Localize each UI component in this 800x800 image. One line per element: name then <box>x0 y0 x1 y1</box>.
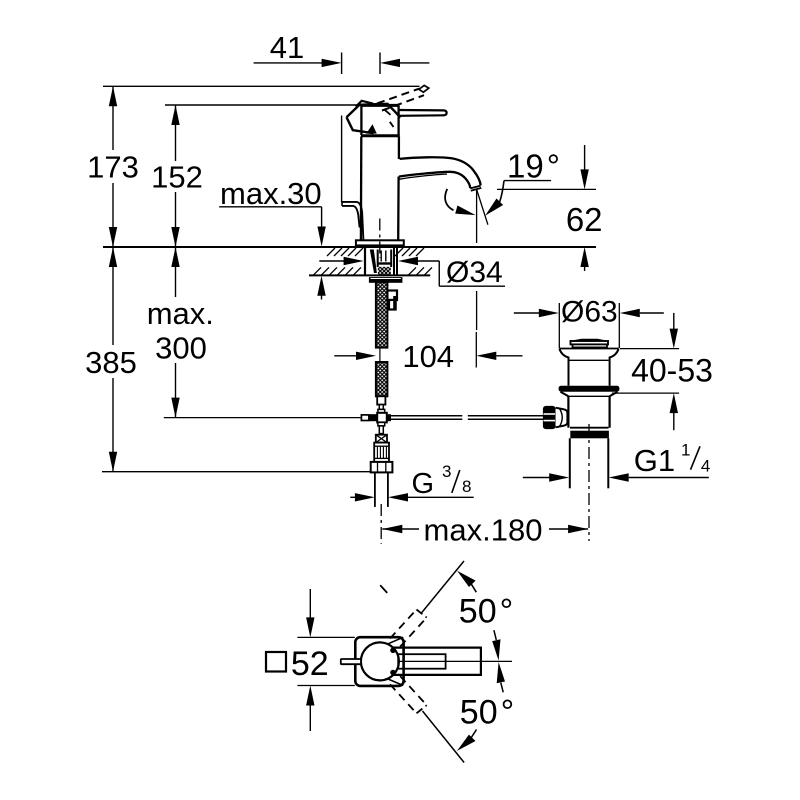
top view square body <box>355 637 403 686</box>
svg-text:50°: 50° <box>459 593 513 631</box>
knurled connector body <box>374 443 389 462</box>
faucet lower centerline <box>380 504 382 544</box>
threaded shank through counter <box>365 248 397 276</box>
dimension 173 <box>87 86 139 247</box>
reference line top of faucet (173 datum) <box>103 85 420 87</box>
bottom reference line (385 datum) <box>102 471 371 473</box>
reference line top of handle base (152 datum) <box>165 104 362 106</box>
spout outlet vertical extension line <box>476 190 478 330</box>
valve shoulder line <box>559 348 618 350</box>
horizontal pop-up rod <box>391 416 543 419</box>
faucet body right edge upper <box>398 137 400 160</box>
lower 50deg leader arrow <box>457 694 514 751</box>
valve side knob <box>543 406 556 429</box>
dimension 19 degrees with leader <box>485 147 560 215</box>
angle vertex arrows at centerline <box>492 630 505 692</box>
dimension max.300 <box>147 247 214 418</box>
svg-text:1: 1 <box>681 441 690 460</box>
dimension 104 <box>334 332 522 374</box>
handle lever rod <box>399 110 447 116</box>
svg-text:max.: max. <box>147 296 214 331</box>
raised lever dashed <box>377 85 429 110</box>
top view lever neck diagonals <box>388 637 403 685</box>
water stream angled line <box>477 190 488 225</box>
dimension 41 <box>254 30 430 202</box>
svg-text:4: 4 <box>701 456 710 475</box>
valve knob stem <box>556 408 568 428</box>
hose side connector <box>387 291 397 310</box>
lower 50deg leg line <box>423 711 465 763</box>
countertop hatching <box>313 248 432 275</box>
dimension max.30 with leader <box>219 176 326 299</box>
dimension square52 <box>266 589 355 731</box>
upper 50deg leg line <box>421 561 464 614</box>
faucet body left edge <box>360 137 363 241</box>
countertop bottom line <box>309 274 430 276</box>
braided hose segment 1 <box>376 282 388 348</box>
svg-text:G: G <box>412 468 435 500</box>
dimension Ø34 with label box <box>319 256 505 289</box>
svg-text:173: 173 <box>87 149 139 184</box>
handle base line <box>361 105 399 135</box>
dimension 40-53 <box>612 313 713 430</box>
svg-text:G1: G1 <box>634 443 675 478</box>
svg-text:152: 152 <box>151 160 203 195</box>
handle knob outline <box>347 101 401 134</box>
upper rotated lever dashed <box>390 610 427 647</box>
vertical rod below tee <box>378 422 385 433</box>
svg-text:52: 52 <box>291 645 329 683</box>
mounting surface line <box>103 246 596 248</box>
svg-text:41: 41 <box>270 30 304 65</box>
svg-text:50°: 50° <box>460 694 514 732</box>
lower rotated lever dashed <box>390 676 427 713</box>
dimension 62 <box>497 145 603 271</box>
hose end fitting <box>377 396 385 413</box>
dimension G 3/8 <box>350 462 473 501</box>
valve centerline <box>588 424 590 541</box>
top view centerline <box>340 660 512 662</box>
svg-text:max.180: max.180 <box>424 513 543 548</box>
curved flow arrow under spout <box>445 189 476 215</box>
faucet centerline <box>379 219 381 259</box>
mounting nut under counter <box>369 277 403 283</box>
valve body cylinder <box>568 396 609 427</box>
svg-text:8: 8 <box>462 477 471 496</box>
svg-text:300: 300 <box>155 331 207 366</box>
svg-text:385: 385 <box>85 345 137 380</box>
svg-text:max.30: max.30 <box>220 176 322 211</box>
svg-text:Ø63: Ø63 <box>561 296 618 329</box>
valve body taper <box>561 392 618 397</box>
dimension G1 1/4 <box>523 441 711 482</box>
svg-text:3: 3 <box>442 462 451 481</box>
svg-text:104: 104 <box>402 339 454 374</box>
valve seal ring <box>559 386 620 392</box>
svg-text:40-53: 40-53 <box>631 353 713 389</box>
faucet base flange <box>356 240 404 245</box>
valve neck <box>559 349 618 386</box>
stray dash of rotated lever <box>380 585 387 593</box>
braided hose segment 2 <box>376 362 388 396</box>
hex nut <box>371 462 393 473</box>
handle knob hidden dashes <box>385 110 394 127</box>
G3/8 tail pipe <box>375 472 388 507</box>
dimension 152 <box>151 105 203 247</box>
pop-up rod tee joint <box>361 413 391 423</box>
lever in down position (hook) <box>342 202 363 240</box>
valve tail pipe <box>570 438 609 488</box>
faucet body top line <box>361 134 400 137</box>
dimension 385 <box>85 247 137 472</box>
valve coupling nut <box>570 431 609 439</box>
spout <box>399 157 481 190</box>
top view lever bar <box>390 648 481 676</box>
faucet body right edge lower <box>397 177 400 241</box>
top view cartridge circle <box>361 642 399 680</box>
svg-text:Ø34: Ø34 <box>446 256 503 289</box>
max.300 reference line / pop-up rod leader <box>164 417 361 419</box>
svg-text:62: 62 <box>566 201 603 238</box>
hose break centerline <box>379 348 381 362</box>
svg-text:19°: 19° <box>507 147 560 184</box>
upper 50deg leader arrow <box>457 571 513 631</box>
G3/8 coupler with cross <box>376 435 387 443</box>
dimension max.180 <box>382 513 588 548</box>
valve stopper cap <box>571 340 609 348</box>
top view left stub <box>341 659 361 664</box>
dimension Ø63 <box>514 296 664 349</box>
